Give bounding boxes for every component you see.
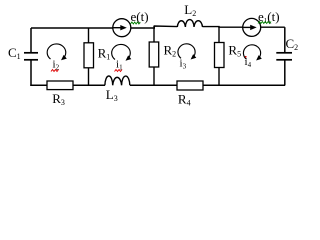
green squiggle under e(t) [131, 22, 141, 24]
capacitor C2 [276, 52, 292, 54]
wire bottom rail L3 to R4 [130, 84, 177, 86]
wire top rail raised segment R2 to L2 [154, 26, 177, 28]
resistor R3 [47, 81, 73, 90]
source e(t) [113, 19, 131, 37]
inductor L2 [177, 20, 202, 27]
green squiggle under e1(t) [258, 22, 271, 24]
mesh arrow i1 [112, 44, 132, 60]
resistor R1 [88, 28, 90, 43]
wire top rail left segment [31, 27, 113, 29]
wire top rail L2 to source2 [203, 26, 243, 29]
mesh arrow i2 [47, 44, 67, 60]
resistor R4 [177, 81, 203, 90]
wire left rail above C1 [30, 28, 32, 53]
wire top rail source2 to top-right corner [261, 26, 285, 28]
wire bottom rail left of R3 [30, 84, 47, 86]
wire top rail between source1 and R2 riser [131, 27, 155, 29]
mesh arrow i4 [243, 45, 261, 61]
resistor R5 [215, 43, 225, 68]
source e1(t) [243, 18, 261, 36]
resistor R2 [149, 42, 159, 67]
wire bottom rail R4 to right corner [203, 84, 285, 86]
capacitor C1 [24, 52, 38, 54]
wire left rail below C1 [30, 59, 32, 86]
red dot over i4 [245, 56, 247, 58]
wire right rail above C2 [284, 27, 286, 52]
mesh arrow i3 [178, 44, 196, 60]
red squiggle under i1 [115, 70, 123, 72]
wire bottom rail R3 to L3 [73, 84, 105, 86]
svg-text:e(t): e(t) [131, 9, 149, 24]
wire right rail below C2 [284, 59, 286, 85]
inductor L3 [105, 76, 130, 85]
red squiggle under i2 [51, 70, 59, 72]
